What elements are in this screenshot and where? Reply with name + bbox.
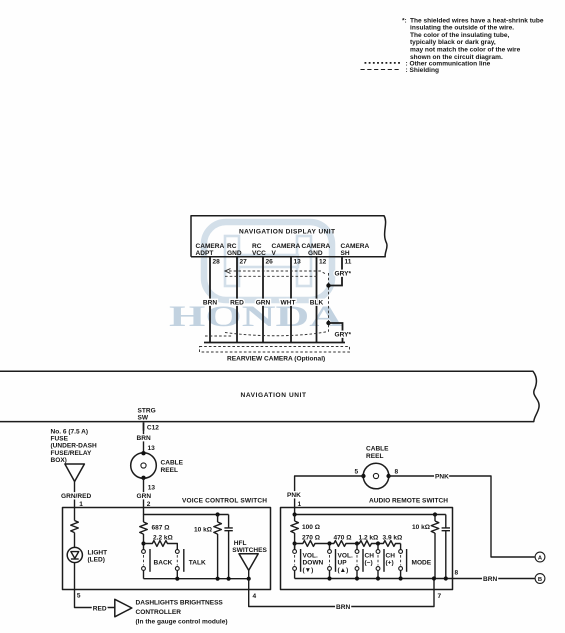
- svg-text:10 kΩ: 10 kΩ: [194, 527, 212, 534]
- switch MODE: [399, 549, 432, 572]
- svg-text:RC: RC: [227, 243, 237, 250]
- svg-text:REARVIEW CAMERA (Optional): REARVIEW CAMERA (Optional): [227, 356, 325, 363]
- svg-text:13: 13: [148, 485, 156, 492]
- svg-text:CH: CH: [365, 553, 375, 560]
- svg-text:insulating the outside of the: insulating the outside of the wire.: [410, 25, 514, 32]
- svg-text:typically black or dark gray,: typically black or dark gray,: [410, 39, 496, 46]
- wire BLK pin 12: [316, 257, 318, 343]
- svg-text:26: 26: [266, 259, 274, 266]
- bottom rail (voice): [144, 578, 249, 580]
- svg-text:PNK: PNK: [287, 492, 301, 499]
- wire pin 2 into switch and top rail: [144, 508, 229, 515]
- voice control switch box: [63, 508, 271, 590]
- junction ch plus: [376, 576, 380, 580]
- junction capacitor (audio): [444, 576, 448, 580]
- svg-text:(▼): (▼): [303, 567, 314, 574]
- svg-text:NAVIGATION UNIT: NAVIGATION UNIT: [241, 392, 307, 399]
- wire hfl to bottom rail: [248, 570, 250, 578]
- wire RED pin 27: [236, 257, 238, 343]
- svg-text:GRN/RED: GRN/RED: [61, 493, 91, 500]
- svg-text:7: 7: [438, 593, 442, 600]
- connector A: [535, 552, 545, 562]
- wire WHT pin 13: [290, 257, 292, 343]
- cable reel (audio): [363, 463, 389, 489]
- junction vol up: [327, 576, 331, 580]
- navigation display unit box: [191, 216, 387, 257]
- power feed triangle from fuse: [65, 464, 85, 482]
- wire LED to pin 5: [74, 563, 76, 590]
- wire BRN navigation unit to cable reel pin 13: [143, 430, 145, 453]
- watermark Honda badge logo: [204, 222, 332, 300]
- svg-text:CONTROLLER: CONTROLLER: [136, 609, 182, 616]
- svg-text:CH: CH: [386, 553, 396, 560]
- wires switches to bottom rail: [295, 570, 401, 578]
- junction TALK: [175, 577, 179, 581]
- svg-text:: Shielding: : Shielding: [406, 67, 439, 74]
- svg-text:CAMERA: CAMERA: [302, 243, 331, 250]
- wire GRN pin 26: [262, 257, 264, 343]
- svg-text:(▲): (▲): [338, 567, 349, 574]
- wire PNK cable reel to audio switch pin 1: [295, 476, 364, 508]
- switch BACK: [142, 549, 173, 572]
- junction ch minus: [355, 576, 359, 580]
- shield dashed vertical run: [328, 273, 330, 332]
- junction ladder ch minus: [355, 541, 359, 545]
- svg-text:VOL.: VOL.: [338, 553, 353, 560]
- svg-text:12: 12: [319, 259, 327, 266]
- svg-text:8: 8: [395, 469, 399, 476]
- junction ladder left: [293, 541, 297, 545]
- svg-text:TALK: TALK: [189, 560, 206, 567]
- svg-text:DOWN: DOWN: [303, 560, 324, 567]
- wire BRN pin 28: [209, 257, 211, 343]
- wire PNK cable reel to connector A: [389, 476, 535, 557]
- svg-text:CAMERA: CAMERA: [341, 243, 370, 250]
- wire rail to resistor 687: [143, 515, 145, 523]
- svg-text:VOL.: VOL.: [303, 553, 318, 560]
- connector C12 pin stub: [143, 423, 145, 431]
- svg-text:2.2 kΩ: 2.2 kΩ: [153, 535, 173, 542]
- junction hfl / pin 4: [247, 577, 251, 581]
- svg-text:RED: RED: [93, 606, 107, 613]
- rearview camera dashed outline: [200, 347, 350, 353]
- svg-text:SH: SH: [341, 250, 350, 257]
- legend note text: [402, 17, 544, 61]
- svg-text:BRN: BRN: [336, 604, 350, 611]
- wires ladder to switch contacts: [295, 544, 401, 550]
- wire pin 1 to illumination resistor: [74, 508, 76, 521]
- svg-text:ADPT: ADPT: [196, 250, 214, 257]
- resistor 687 ohm: [140, 522, 148, 534]
- svg-text:100 Ω: 100 Ω: [302, 524, 320, 531]
- junction rail / 10k: [433, 512, 437, 516]
- junction shield to pin 11: [326, 283, 330, 287]
- svg-text:27: 27: [240, 259, 248, 266]
- svg-text:13: 13: [294, 259, 302, 266]
- wire resistor 100 to ladder: [294, 533, 296, 550]
- svg-text:GND: GND: [308, 250, 323, 257]
- bottom rail (audio): [295, 578, 453, 580]
- resistor 100 ohm: [294, 515, 296, 522]
- svg-text:GRY*: GRY*: [335, 271, 352, 278]
- junction pin 1 / rail: [293, 512, 297, 516]
- switch TALK: [175, 549, 206, 572]
- svg-text:(UNDER-DASH: (UNDER-DASH: [51, 443, 97, 450]
- svg-text:10 kΩ: 10 kΩ: [412, 524, 430, 531]
- audio remote switch box: [281, 508, 453, 590]
- legend sample: shielding: [361, 69, 400, 71]
- wire color labels BRN RED GRN WHT BLK: [203, 299, 324, 306]
- svg-text:11: 11: [345, 259, 352, 266]
- pin name labels CAMERA ADPT / RC GND / RC VCC / CAMERA V / CAMERA GND / CAMERA SH: [196, 243, 370, 257]
- svg-text:5: 5: [355, 469, 359, 476]
- wire RED pin 5 to dashlights controller: [75, 590, 115, 608]
- junction 2.2k tap: [141, 541, 145, 545]
- svg-text:AUDIO REMOTE SWITCH: AUDIO REMOTE SWITCH: [369, 498, 448, 505]
- svg-text:FUSE/RELAY: FUSE/RELAY: [51, 450, 92, 457]
- wire GRN cable reel to voice control switch pin 2: [143, 478, 145, 508]
- svg-text:VOICE CONTROL SWITCH: VOICE CONTROL SWITCH: [182, 498, 267, 505]
- wire pin 11 camera shield: [329, 257, 343, 286]
- svg-text:V: V: [272, 250, 277, 257]
- svg-text:(+): (+): [386, 560, 394, 567]
- svg-text:687 Ω: 687 Ω: [152, 525, 170, 532]
- switch VOL DOWN: [293, 549, 324, 574]
- svg-text:PNK: PNK: [435, 474, 449, 481]
- light LED: [67, 547, 82, 562]
- rearview camera connector line: [204, 342, 345, 344]
- svg-text:(LED): (LED): [88, 557, 105, 564]
- shield dashed lines (top): [229, 271, 327, 275]
- shield dashed lines (bottom): [225, 332, 329, 336]
- svg-text:C12: C12: [147, 424, 159, 431]
- switch VOL UP: [328, 549, 353, 574]
- junction mode: [399, 576, 403, 580]
- wire TALK to bottom rail: [176, 570, 178, 578]
- svg-text:CABLE: CABLE: [161, 460, 184, 467]
- svg-text:MODE: MODE: [412, 560, 432, 567]
- junction shield to camera: [326, 321, 330, 325]
- svg-text:RED: RED: [230, 299, 244, 306]
- navigation unit box: [0, 371, 539, 421]
- switch CH plus: [376, 549, 395, 572]
- svg-text:GRN: GRN: [256, 299, 271, 306]
- svg-text:B: B: [538, 577, 542, 583]
- svg-text:(In the gauge control module): (In the gauge control module): [136, 619, 228, 626]
- pin numbers 28 27 26 13 12 11: [213, 259, 352, 266]
- wire pin 1 into audio switch and top rail: [295, 508, 446, 515]
- svg-text:No. 6 (7.5 A): No. 6 (7.5 A): [51, 429, 89, 436]
- svg-text:28: 28: [213, 259, 221, 266]
- svg-text:BLK: BLK: [310, 299, 324, 306]
- junction pin 7: [432, 576, 436, 580]
- connector B: [535, 574, 545, 584]
- wire GRN/RED fuse to voice control switch pin 1: [74, 482, 76, 508]
- legend sample: other communication line: [365, 62, 403, 64]
- svg-text:NAVIGATION DISPLAY UNIT: NAVIGATION DISPLAY UNIT: [239, 229, 335, 236]
- svg-text:8: 8: [455, 570, 459, 577]
- svg-text:WHT: WHT: [281, 299, 296, 306]
- svg-text:STRG: STRG: [138, 407, 156, 414]
- junction ladder ch plus: [376, 541, 380, 545]
- svg-text:may not match the color of the: may not match the color of the wire: [410, 47, 521, 54]
- svg-text:BRN: BRN: [203, 299, 217, 306]
- label fuse no.6: [51, 429, 97, 464]
- wire BACK to bottom rail: [143, 570, 145, 578]
- svg-text:(−): (−): [365, 560, 373, 567]
- shield arrow: [225, 269, 231, 274]
- svg-text:CAMERA: CAMERA: [196, 243, 225, 250]
- junction 10k: [216, 577, 220, 581]
- svg-text:BRN: BRN: [137, 435, 151, 442]
- wire resistor to LED: [74, 533, 76, 548]
- dashlights brightness controller triangle: [115, 599, 132, 617]
- wire resistor to BACK switch: [143, 534, 145, 550]
- resistor (illumination): [71, 521, 79, 533]
- label dashlights brightness controller: [136, 600, 228, 626]
- svg-text:REEL: REEL: [366, 453, 383, 460]
- svg-text:SW: SW: [138, 414, 149, 421]
- svg-text:UP: UP: [338, 560, 348, 567]
- switch CH minus: [355, 549, 374, 572]
- svg-text:BACK: BACK: [154, 560, 173, 567]
- wire BRN pin 4 to pin 7: [249, 579, 434, 607]
- svg-text:GND: GND: [227, 250, 242, 257]
- svg-text:DASHLIGHTS BRIGHTNESS: DASHLIGHTS BRIGHTNESS: [136, 600, 224, 607]
- junction ladder vol up: [327, 541, 331, 545]
- svg-text:The color of the insulating tu: The color of the insulating tube,: [410, 32, 509, 39]
- wire BRN pin 8 to connector B: [453, 578, 535, 580]
- capacitor (audio): [445, 515, 447, 528]
- svg-text:GRY*: GRY*: [335, 332, 352, 339]
- wire GRY* shield drain to camera: [329, 323, 343, 343]
- junction top rail / 10k: [216, 512, 220, 516]
- svg-text:REEL: REEL: [161, 467, 178, 474]
- svg-text:The shielded wires have a heat: The shielded wires have a heat-shrink tu…: [410, 17, 544, 24]
- svg-text:RC: RC: [252, 243, 262, 250]
- svg-text:VCC: VCC: [252, 250, 266, 257]
- svg-text:CABLE: CABLE: [366, 446, 389, 453]
- svg-text:5: 5: [77, 593, 81, 600]
- junction capacitor: [227, 577, 231, 581]
- svg-text:*:: *:: [402, 17, 407, 24]
- svg-text:BOX): BOX): [51, 457, 67, 464]
- svg-text:BRN: BRN: [483, 576, 497, 583]
- resistor ladder 270/470/1.2k/3.9k: [295, 541, 401, 547]
- svg-text:FUSE: FUSE: [51, 436, 69, 443]
- svg-text:LIGHT: LIGHT: [88, 550, 108, 557]
- cable reel (steering): [131, 453, 157, 479]
- svg-text:HFL: HFL: [234, 540, 247, 547]
- svg-text:GRN: GRN: [137, 493, 152, 500]
- svg-text:13: 13: [148, 445, 156, 452]
- capacitor (voice): [228, 515, 230, 528]
- svg-text:CAMERA: CAMERA: [272, 243, 301, 250]
- svg-text:4: 4: [253, 593, 257, 600]
